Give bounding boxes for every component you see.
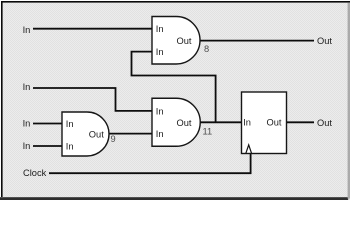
- flip-flop U1: [242, 92, 287, 154]
- wire: AND gate 9 output to AND gate 11 pin 2 (net 9): [109, 133, 152, 135]
- svg-text:In: In: [156, 47, 164, 57]
- svg-text:In: In: [66, 141, 74, 151]
- svg-text:Out: Out: [317, 118, 332, 128]
- svg-text:In: In: [23, 141, 31, 151]
- wire: input In2 to AND gate 11 pin 1: [33, 88, 152, 111]
- wire: Clock to flip-flop clock pin: [49, 154, 251, 174]
- wire: AND gate 11 output to flip-flop In (net 11): [200, 121, 242, 123]
- svg-text:In: In: [156, 129, 164, 139]
- svg-text:In: In: [23, 82, 31, 92]
- svg-text:Out: Out: [317, 36, 332, 46]
- and-gate 9: [62, 112, 109, 156]
- clock edge wedge on flip-flop: [246, 145, 252, 154]
- wire: input In1 to AND gate 8 pin 1: [33, 28, 152, 30]
- frame top: [0, 0, 350, 1]
- frame right: [348, 3, 350, 199]
- and-gate 11: [152, 98, 200, 146]
- svg-text:Clock: Clock: [23, 168, 47, 178]
- svg-text:In: In: [23, 25, 31, 35]
- svg-text:In: In: [156, 24, 164, 34]
- svg-text:In: In: [66, 119, 74, 129]
- svg-text:Out: Out: [177, 36, 192, 46]
- svg-text:8: 8: [204, 44, 209, 54]
- wire: feedback from node 11 to AND gate 8 pin 2: [132, 52, 216, 123]
- svg-text:Out: Out: [89, 129, 104, 139]
- frame bottom: [0, 197, 348, 200]
- wire: input In4 to AND gate 9 pin 2: [33, 145, 62, 147]
- svg-text:Out: Out: [177, 118, 192, 128]
- wire: flip-flop output to Out: [287, 121, 315, 123]
- svg-text:In: In: [156, 106, 164, 116]
- svg-text:Out: Out: [267, 118, 282, 128]
- svg-text:In: In: [243, 118, 251, 128]
- wire: input In3 to AND gate 9 pin 1: [33, 123, 62, 125]
- svg-text:9: 9: [111, 134, 116, 144]
- wire: AND gate 8 output to Out (net 8): [200, 40, 314, 42]
- svg-text:11: 11: [203, 126, 213, 136]
- svg-text:In: In: [23, 119, 31, 129]
- and-gate 8: [152, 17, 200, 65]
- frame left: [0, 0, 1, 197]
